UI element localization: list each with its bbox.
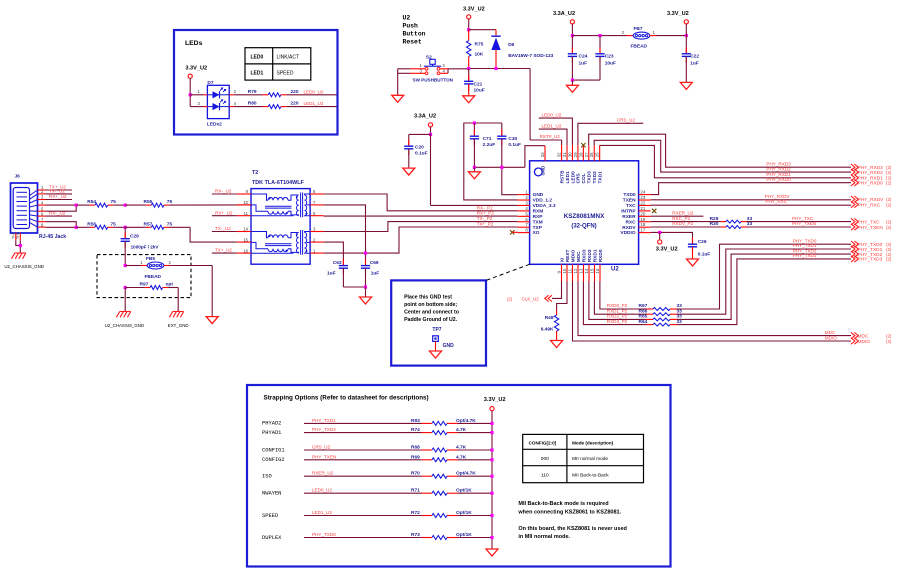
off-page PHY_RXD3 (851, 164, 892, 171)
ground (switch) (392, 95, 404, 102)
svg-text:RX-_P2: RX-_P2 (477, 205, 494, 210)
svg-text:RXER: RXER (622, 214, 636, 220)
svg-text:Push: Push (403, 23, 419, 30)
svg-text:21: 21 (640, 206, 645, 211)
svg-text:U2_CHASSIS_GND: U2_CHASSIS_GND (4, 264, 44, 269)
net LED1_U2 (chip) (539, 123, 567, 145)
svg-text:U2: U2 (403, 15, 411, 22)
ground (FB5) (206, 266, 218, 324)
svg-text:PHY_TXC: PHY_TXC (858, 219, 881, 225)
wire gnd rail (474, 146, 545, 195)
svg-text:18: 18 (640, 222, 645, 227)
svg-text:CRS: CRS (576, 173, 582, 184)
svg-text:15: 15 (590, 268, 595, 273)
capacitor C71 (470, 123, 495, 167)
svg-text:(2): (2) (886, 197, 892, 202)
svg-text:in MII normal mode.: in MII normal mode. (518, 534, 570, 540)
no-connect INTRP (652, 209, 656, 213)
resistor R48 (541, 282, 567, 341)
svg-text:11: 11 (568, 268, 573, 273)
svg-text:MDC: MDC (825, 330, 836, 335)
wire TXEN to PHY_RXDV (651, 199, 851, 201)
svg-text:8: 8 (525, 228, 528, 233)
svg-text:6.49K: 6.49K (541, 326, 554, 332)
svg-text:14: 14 (584, 268, 589, 273)
svg-text:(2): (2) (886, 339, 892, 344)
resistor R55 (125, 199, 250, 207)
chassis ground U2_CHASSIS_GND (jack) (4, 253, 44, 269)
svg-text:RXC_P2: RXC_P2 (672, 216, 690, 221)
svg-text:0.1uF: 0.1uF (415, 150, 428, 156)
svg-text:KSZ8081MNX: KSZ8081MNX (564, 213, 605, 220)
wire rail (572, 35, 626, 37)
net CRS_U2 (578, 118, 643, 146)
svg-text:C21: C21 (474, 81, 483, 87)
svg-text:R56: R56 (87, 221, 96, 227)
svg-text:XI: XI (559, 257, 565, 262)
wire PHY_TXD0 run (681, 244, 852, 309)
off-page MDIO (851, 338, 892, 345)
svg-text:TXM: TXM (533, 219, 543, 225)
wire MDIO (573, 282, 852, 342)
svg-text:DUPLEX: DUPLEX (262, 535, 282, 541)
wire cap bottoms (572, 79, 600, 81)
power 3.3A_U2 (top right) (553, 11, 575, 36)
wire T2 pin3 to TXM (324, 222, 518, 232)
svg-text:16: 16 (243, 248, 248, 253)
svg-text:TX+_P2: TX+_P2 (477, 222, 494, 227)
svg-text:RX+_U2: RX+_U2 (215, 210, 233, 215)
svg-text:75: 75 (111, 221, 117, 227)
svg-text:110: 110 (541, 473, 549, 479)
svg-text:RXD3: RXD3 (581, 249, 587, 262)
resistor R65 (607, 314, 682, 321)
svg-text:TH2: TH2 (16, 232, 20, 239)
net TX-_U2 (T2) (212, 226, 237, 231)
svg-text:1uF: 1uF (690, 61, 699, 67)
net LED0_U2 (304, 89, 324, 94)
svg-text:TX-_U2: TX-_U2 (215, 226, 231, 231)
off-page PHY_TXEN (851, 224, 892, 231)
diode D7 dual LED (198, 80, 237, 127)
svg-text:33: 33 (540, 152, 545, 157)
svg-text:TDK TLA-6T104WLF: TDK TLA-6T104WLF (252, 180, 305, 186)
svg-text:3.3V_U2: 3.3V_U2 (667, 11, 689, 17)
svg-text:4: 4 (234, 101, 237, 106)
wire T2 pin6 to RXP (324, 215, 518, 217)
svg-text:MII normal mode: MII normal mode (572, 456, 608, 462)
ferrite bead FB5 (125, 256, 212, 280)
svg-text:MDC: MDC (576, 251, 582, 262)
net labels PHY_RXD3-0 (766, 161, 791, 182)
strap PHYAD1 resistor R74 (262, 427, 494, 436)
svg-text:RXDV_P2: RXDV_P2 (672, 221, 693, 226)
svg-text:30: 30 (567, 152, 572, 157)
svg-text:(2): (2) (886, 202, 892, 207)
svg-text:RXM: RXM (533, 208, 544, 214)
svg-text:2: 2 (622, 30, 625, 35)
svg-text:U2_CHASSIS_GND: U2_CHASSIS_GND (105, 323, 145, 328)
svg-text:27: 27 (584, 152, 589, 157)
net MDC label (825, 330, 836, 335)
svg-text:PHY_RXD2: PHY_RXD2 (766, 166, 791, 171)
net TX+_U2 (T2) (212, 248, 237, 253)
svg-text:GND: GND (533, 192, 544, 198)
svg-text:PHY_TXD2: PHY_TXD2 (312, 427, 336, 432)
resistor R97 (125, 282, 178, 290)
svg-text:LED1_U2: LED1_U2 (304, 101, 324, 106)
switch S2 SW PUSHBUTTON (410, 55, 454, 83)
svg-text:LED0: LED0 (570, 171, 576, 184)
power 3.3V_U2 (LEDs) (185, 66, 207, 95)
junction (685, 34, 688, 37)
svg-text:FBEAD: FBEAD (145, 274, 162, 280)
svg-text:220: 220 (291, 101, 299, 107)
svg-text:ISO: ISO (262, 474, 272, 480)
svg-text:3.3V_U2: 3.3V_U2 (463, 7, 485, 13)
LED function table (245, 48, 311, 80)
wire T2 pin8 to RXM (324, 194, 518, 211)
svg-text:29: 29 (573, 152, 578, 157)
svg-text:(2): (2) (886, 181, 892, 186)
svg-text:SPEED: SPEED (262, 513, 278, 519)
off-page PHY_RXC (851, 201, 892, 208)
svg-text:R71: R71 (411, 488, 420, 494)
svg-text:4.7K: 4.7K (456, 427, 467, 433)
resistor R79 (234, 89, 337, 97)
dashed option box (97, 255, 191, 298)
svg-text:PHY_RXDV: PHY_RXDV (858, 197, 885, 203)
svg-text:CLK_U2: CLK_U2 (522, 296, 540, 301)
svg-text:R57: R57 (144, 221, 153, 227)
svg-text:2: 2 (525, 195, 528, 200)
svg-text:BAV16W-7 SOD-123: BAV16W-7 SOD-123 (508, 53, 553, 59)
svg-text:TXD3: TXD3 (587, 171, 593, 184)
svg-text:RXDV: RXDV (622, 225, 636, 231)
junction (75, 226, 78, 229)
wire pins 7-8 (46, 222, 77, 228)
wire VDDIO (651, 232, 693, 244)
svg-text:14: 14 (243, 227, 248, 232)
svg-text:R54: R54 (87, 199, 96, 205)
ground (R48) (551, 341, 563, 348)
svg-text:PHY_TXEN: PHY_TXEN (792, 221, 816, 226)
svg-text:(2): (2) (886, 225, 892, 230)
junction (364, 285, 367, 288)
svg-text:LINK/ACT: LINK/ACT (277, 54, 300, 60)
svg-text:R65: R65 (639, 314, 648, 320)
svg-text:(2): (2) (886, 170, 892, 175)
svg-text:3.3V_U2: 3.3V_U2 (484, 397, 506, 403)
resistor R29 (651, 216, 851, 223)
svg-text:R64: R64 (639, 319, 648, 325)
svg-text:C63: C63 (333, 260, 342, 266)
LEDs title (185, 40, 203, 47)
LEDs sheet box (174, 30, 338, 135)
wire (469, 29, 496, 31)
net LED1_U2 (304, 101, 324, 106)
svg-text:25: 25 (595, 152, 600, 157)
svg-text:On this board, the KSZ8081 is: On this board, the KSZ8081 is never used (518, 526, 627, 532)
note text (404, 294, 459, 323)
svg-text:31: 31 (562, 152, 567, 157)
svg-text:33: 33 (677, 319, 683, 325)
svg-text:RST#_U2: RST#_U2 (540, 134, 561, 139)
svg-text:TXD1: TXD1 (597, 171, 603, 184)
svg-text:LED0_U2: LED0_U2 (304, 89, 324, 94)
svg-text:CRS_U2: CRS_U2 (312, 445, 331, 450)
wire TXD2 to PHY_RXD2 (594, 140, 851, 172)
junction (124, 286, 127, 289)
IC U2 KSZ8081MNX (518, 145, 651, 281)
svg-text:C69: C69 (370, 260, 379, 266)
svg-text:PHY_TXC: PHY_TXC (792, 216, 814, 221)
svg-text:TP7: TP7 (432, 327, 441, 333)
svg-text:point on bottom side;: point on bottom side; (404, 302, 457, 308)
wire RXD1_P2 (594, 282, 640, 315)
svg-text:R80: R80 (248, 101, 257, 107)
svg-text:R93: R93 (411, 418, 420, 424)
svg-text:COL: COL (581, 173, 587, 183)
off-page MDC (851, 332, 892, 339)
svg-text:C24: C24 (579, 54, 588, 60)
transformer T2 TDK TLA-6T104WLF (237, 170, 324, 264)
svg-text:VDD_1.2: VDD_1.2 (533, 198, 553, 204)
svg-text:CONFIG[2:0]: CONFIG[2:0] (529, 440, 557, 445)
svg-text:RSTB: RSTB (559, 170, 565, 184)
svg-text:RJ-45 Jack: RJ-45 Jack (39, 234, 66, 240)
capacitor C24 (568, 36, 588, 81)
svg-text:C22: C22 (690, 54, 699, 60)
svg-text:RXC: RXC (625, 219, 636, 225)
svg-text:4.7K: 4.7K (456, 454, 467, 460)
svg-text:RXER_U2: RXER_U2 (672, 210, 694, 215)
ground (C71/C30) (468, 167, 480, 179)
power 3.3V_U2 (reset) (463, 7, 485, 30)
svg-text:3: 3 (525, 200, 528, 205)
svg-text:Opt/1K: Opt/1K (456, 532, 472, 538)
net MDIO label (825, 335, 837, 340)
svg-text:220: 220 (291, 89, 299, 95)
pins TH1 TH2 (12, 232, 21, 252)
svg-text:0.1uF: 0.1uF (508, 142, 521, 148)
svg-text:3.3A_U2: 3.3A_U2 (553, 11, 575, 17)
svg-text:Opt/1K: Opt/1K (456, 488, 472, 494)
svg-text:R69: R69 (411, 454, 420, 460)
svg-text:EXT_GND: EXT_GND (168, 323, 189, 328)
svg-text:R66: R66 (639, 308, 648, 314)
net RX-_P2 (477, 205, 494, 210)
svg-text:000: 000 (541, 456, 549, 462)
capacitor C26 (688, 238, 710, 259)
wire to T2 pin15 (190, 227, 237, 242)
net RST#_U2 (540, 134, 562, 145)
svg-text:XO: XO (533, 230, 540, 236)
svg-text:6: 6 (525, 217, 528, 222)
svg-text:17: 17 (640, 228, 645, 233)
svg-text:R29: R29 (710, 216, 719, 222)
svg-text:33: 33 (747, 216, 753, 222)
svg-text:23: 23 (640, 195, 645, 200)
svg-text:R30: R30 (710, 221, 719, 227)
ground (C63/C69) (360, 287, 372, 304)
svg-text:RX+_U2: RX+_U2 (49, 194, 67, 199)
svg-text:when connecting KSZ8061 to KSZ: when connecting KSZ8061 to KSZ8081. (517, 509, 621, 515)
svg-text:RXD2: RXD2 (587, 249, 593, 262)
wire RSTB to chip (530, 69, 562, 141)
svg-text:RXD0: RXD0 (598, 249, 604, 262)
svg-text:4: 4 (525, 206, 528, 211)
svg-text:33: 33 (747, 221, 753, 227)
svg-text:opt: opt (166, 282, 174, 288)
svg-text:MII Back-to-Back mode is requi: MII Back-to-Back mode is required (518, 501, 608, 507)
svg-text:12: 12 (573, 268, 578, 273)
resistor R75 (467, 30, 484, 69)
svg-text:R55: R55 (144, 199, 153, 205)
wire MDC (578, 282, 851, 336)
svg-text:(2): (2) (886, 257, 892, 262)
junction (494, 67, 497, 70)
junction (473, 121, 476, 124)
svg-text:LED1_U2: LED1_U2 (542, 123, 562, 128)
capacitor C63 (327, 259, 348, 287)
resistor R64 (607, 319, 682, 326)
svg-text:4.7K: 4.7K (456, 445, 467, 451)
strap CONFIG2 resistor R69 (262, 454, 494, 463)
strapping title (264, 395, 429, 402)
off-page PHY_RXD2 (851, 169, 892, 176)
svg-text:1uF: 1uF (327, 271, 336, 277)
junction (364, 252, 367, 255)
svg-text:20: 20 (640, 211, 645, 216)
strap SPEED resistor R72 (262, 510, 494, 519)
svg-text:J6: J6 (15, 174, 21, 180)
off-page PHY_RXD0 (851, 180, 892, 187)
svg-text:Center and connect to: Center and connect to (404, 309, 459, 315)
svg-text:GND: GND (443, 343, 455, 349)
capacitor C29 (121, 227, 160, 265)
svg-text:D7: D7 (207, 80, 213, 86)
svg-text:C29: C29 (130, 234, 139, 240)
svg-text:R67: R67 (639, 303, 648, 309)
resistor R80 (234, 101, 337, 109)
net PHY_TXC label (792, 216, 814, 221)
no-connect COL (581, 143, 585, 147)
svg-text:(2): (2) (886, 333, 892, 338)
svg-text:VDDIO: VDDIO (620, 230, 635, 236)
svg-text:9: 9 (557, 271, 562, 274)
wire (657, 35, 687, 37)
svg-text:C26: C26 (698, 239, 707, 245)
svg-text:LED0_U2: LED0_U2 (312, 488, 332, 493)
svg-text:PHY_TXD1: PHY_TXD1 (858, 247, 883, 253)
junction (658, 231, 661, 234)
resistor R57 (125, 221, 190, 229)
junction (189, 93, 192, 96)
svg-text:1000pF / 2kV: 1000pF / 2kV (131, 245, 160, 250)
svg-text:5: 5 (525, 211, 528, 216)
svg-text:REXT: REXT (565, 249, 571, 262)
wire TXD0 to PHY_RXD0 (651, 183, 851, 195)
svg-text:1: 1 (653, 30, 656, 35)
net TX-_U2 (46, 189, 73, 194)
junction (473, 166, 476, 169)
svg-text:U2: U2 (611, 267, 619, 273)
capacitor C21 (464, 69, 485, 96)
ground (C26) (687, 259, 699, 266)
svg-text:TXD2: TXD2 (592, 171, 598, 184)
off-page PHY_TXD0 (851, 241, 892, 248)
svg-text:PHY_TXEN: PHY_TXEN (312, 454, 336, 459)
svg-text:1: 1 (525, 190, 528, 195)
svg-text:1: 1 (140, 260, 143, 265)
off-page PHY_TXD2 (851, 251, 892, 258)
svg-text:10K: 10K (475, 52, 484, 58)
wire cap bottoms (343, 286, 365, 288)
svg-text:MDIO: MDIO (825, 335, 837, 340)
svg-text:TXP: TXP (533, 225, 543, 231)
svg-text:R48: R48 (545, 315, 554, 321)
svg-text:SPEED: SPEED (277, 70, 294, 76)
svg-text:PHY_RXD2: PHY_RXD2 (858, 170, 884, 176)
svg-text:2.2uF: 2.2uF (483, 142, 496, 148)
svg-text:CONFIG1: CONFIG1 (262, 447, 285, 453)
junction (571, 34, 574, 37)
capacitor C22 (682, 36, 700, 83)
svg-text:PHY_RXD0: PHY_RXD0 (766, 177, 791, 182)
svg-text:0.1uF: 0.1uF (698, 251, 711, 257)
svg-text:RXD3_P2: RXD3_P2 (607, 319, 628, 324)
svg-text:1uF: 1uF (371, 271, 380, 277)
wire pins 4-5 (46, 205, 77, 211)
svg-text:RX-_U2: RX-_U2 (215, 189, 232, 194)
junction (124, 226, 127, 229)
svg-text:19: 19 (640, 217, 645, 222)
svg-text:LED0: LED0 (251, 54, 264, 60)
off-page PHY_TXC (851, 218, 892, 225)
net LED0_U2 (chip) (539, 112, 573, 145)
svg-text:Opt/4.7K: Opt/4.7K (456, 418, 476, 424)
svg-text:LED1: LED1 (565, 171, 571, 184)
svg-text:1uF: 1uF (579, 61, 588, 67)
off-page PHY_TXD3 (851, 256, 892, 263)
svg-text:FB5: FB5 (146, 256, 155, 262)
svg-text:RXD1: RXD1 (592, 249, 598, 262)
svg-text:13: 13 (579, 268, 584, 273)
power 3.3V_U2 (VDDIO) (656, 232, 678, 252)
strap NWAYEN resistor R71 (262, 488, 494, 497)
net RXER_U2 (651, 210, 704, 216)
svg-text:(32-QFN): (32-QFN) (571, 224, 596, 230)
capacitor C30 (497, 123, 521, 167)
svg-text:SW PUSHBUTTON: SW PUSHBUTTON (413, 78, 454, 83)
svg-text:PHY_TXD3: PHY_TXD3 (793, 253, 817, 258)
no-connect XO (510, 230, 518, 234)
svg-text:FBEAD: FBEAD (631, 44, 648, 50)
svg-text:LED1: LED1 (251, 70, 264, 76)
off-page PHY_TXD1 (851, 246, 892, 253)
svg-text:24: 24 (640, 190, 645, 195)
svg-text:33: 33 (677, 308, 683, 314)
svg-text:75: 75 (167, 199, 173, 205)
off-page PHY_RXDV (851, 196, 892, 203)
svg-text:LEDs: LEDs (185, 40, 203, 47)
svg-text:10uF: 10uF (474, 88, 485, 94)
svg-text:22: 22 (640, 200, 645, 205)
svg-text:TXD0: TXD0 (623, 192, 636, 198)
note U2 Push Button Reset (403, 15, 426, 46)
wire PHY_TXD3 run (681, 259, 852, 325)
